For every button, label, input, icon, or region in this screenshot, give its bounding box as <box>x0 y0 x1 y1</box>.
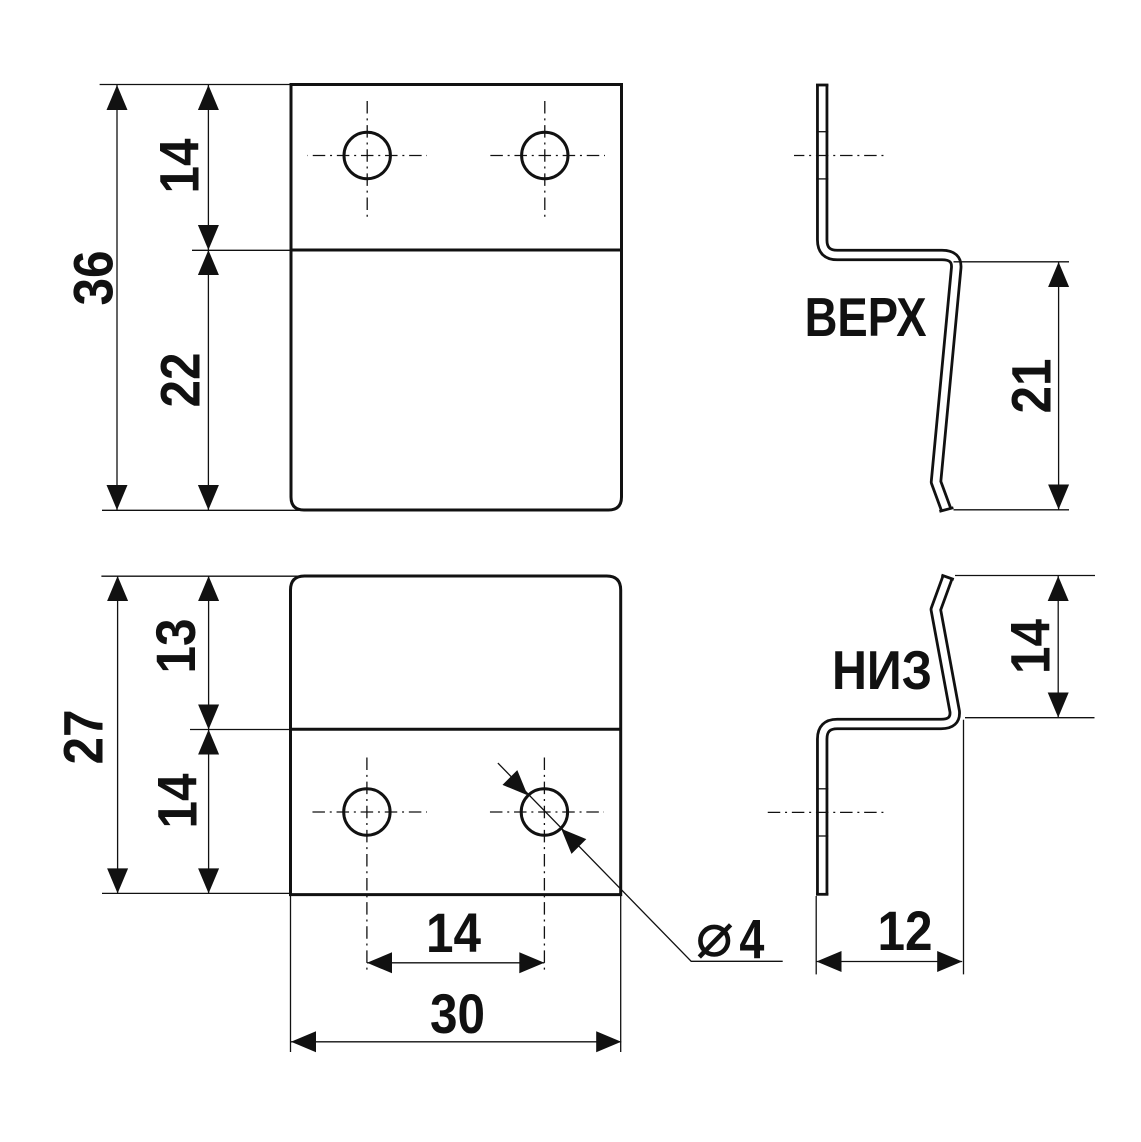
svg-text:27: 27 <box>52 710 115 765</box>
dimension 22 arrow down <box>198 485 219 510</box>
profile top end cap NIZ <box>941 575 953 579</box>
svg-text:22: 22 <box>149 353 212 408</box>
dimension 36 arrow up <box>107 85 128 110</box>
dimension 12 line <box>817 961 963 963</box>
diameter symbol circle <box>700 927 728 955</box>
profile bottom end cap <box>939 508 953 512</box>
dimension 12 arrow right <box>937 951 962 972</box>
svg-text:14: 14 <box>999 619 1062 674</box>
extension line bottom <box>102 509 300 511</box>
svg-text:30: 30 <box>430 982 485 1045</box>
extension line 14 top NIZ <box>955 575 1095 577</box>
bend divider line bottom view <box>291 728 621 731</box>
dimension 12 arrow left <box>817 951 842 972</box>
extension line 21 top <box>954 261 1070 263</box>
dimension 14 hole-spacing line <box>367 962 544 964</box>
dimension 21 arrow down <box>1048 485 1069 510</box>
dimension 14 arrow up <box>198 85 219 110</box>
centerline H1 horizontal <box>308 155 428 157</box>
hidden hole edge tick lower <box>816 178 828 180</box>
diameter symbol slash <box>699 925 730 957</box>
centerline profile NIZ <box>767 811 884 813</box>
profile band outer (BEPX) <box>822 85 956 511</box>
dimension 21 line <box>1058 262 1060 510</box>
hole H1 top view <box>344 132 390 178</box>
svg-text:14: 14 <box>426 901 481 964</box>
dimension 14 arrow up <box>198 730 219 755</box>
centerline H4 horizontal <box>486 811 604 813</box>
svg-text:4: 4 <box>739 908 764 971</box>
dimension 14 upper line <box>207 85 209 250</box>
extension line below-left <box>290 895 292 1052</box>
centerline H2 vertical <box>544 98 546 218</box>
dimension 14 right line <box>1057 576 1059 718</box>
svg-text:14: 14 <box>148 139 211 194</box>
centerline H3 horizontal <box>308 811 427 813</box>
svg-text:21: 21 <box>1000 359 1063 414</box>
dimension 14 hole-spacing arrow right <box>519 952 544 973</box>
svg-text:НИЗ: НИЗ <box>832 639 932 701</box>
hidden hole edge tick upper NIZ <box>816 788 828 790</box>
dimension 27 arrow down <box>107 868 128 893</box>
dimension 27 line <box>117 576 119 893</box>
extension line bend bottom-view <box>190 729 291 731</box>
centerline H3 vertical <box>366 757 368 974</box>
extension line bottom bottom-view <box>102 892 291 894</box>
centerline H4 vertical <box>543 757 545 974</box>
extension line at bend <box>192 249 291 251</box>
leader line diameter callout <box>498 763 783 961</box>
hole H3 bottom view <box>344 789 390 835</box>
dimension 14 arrow down <box>198 868 219 893</box>
dimension 13 arrow up <box>198 576 219 601</box>
hole H2 top view <box>522 132 568 178</box>
dimension 14 lower-left line <box>208 730 210 894</box>
svg-text:14: 14 <box>146 774 209 829</box>
plate outline bottom view <box>291 576 621 895</box>
dimension 22 arrow up <box>198 250 219 275</box>
dimension 30 arrow right <box>596 1031 621 1052</box>
centerline H2 horizontal <box>486 155 605 157</box>
profile band inner white (NIZ) <box>822 577 955 894</box>
dimension 14 hole-spacing arrow left <box>367 952 392 973</box>
hidden hole edge tick upper <box>816 131 828 133</box>
svg-text:ВЕРХ: ВЕРХ <box>805 286 927 348</box>
extension line 12 left vertical <box>815 896 817 974</box>
extension line 14 bottom NIZ <box>965 717 1095 719</box>
dimension 36 arrow down <box>107 485 128 510</box>
dimension 36 line <box>116 85 118 510</box>
extension line below-right <box>620 895 622 1052</box>
profile band outer (NIZ) <box>822 577 955 894</box>
dimension 14 right arrow up <box>1048 576 1069 601</box>
profile top end cap <box>816 84 828 87</box>
dimension 27 arrow up <box>107 576 128 601</box>
svg-text:13: 13 <box>144 619 207 674</box>
dimension 22 line <box>207 250 209 510</box>
hidden hole edge tick lower NIZ <box>816 835 828 837</box>
extension line 21 bottom <box>954 509 1070 511</box>
dimension 21 arrow up <box>1048 262 1069 287</box>
dimension 14 arrow down <box>198 225 219 250</box>
dimension 14 right arrow down <box>1048 693 1069 718</box>
dimension 13 arrow down <box>198 705 219 730</box>
leader arrow upper <box>503 770 528 795</box>
centerline H1 vertical <box>366 98 368 218</box>
profile bottom end cap NIZ <box>816 893 828 896</box>
extension line top bottom-view <box>101 575 302 577</box>
dimension 13 line <box>208 576 210 730</box>
extension line 12 right vertical <box>963 720 965 975</box>
dimension 30 arrow left <box>291 1031 316 1052</box>
centerline profile BEPX <box>794 155 884 157</box>
leader arrow lower <box>561 829 586 854</box>
svg-text:36: 36 <box>62 251 125 306</box>
extension line top <box>100 84 291 86</box>
plate outline top view <box>291 85 622 511</box>
svg-text:12: 12 <box>878 899 933 962</box>
bend divider line top view <box>291 249 622 252</box>
dimension 30 line <box>291 1041 621 1043</box>
hole H4 bottom view <box>521 789 567 835</box>
profile band inner white (BEPX) <box>822 85 956 511</box>
